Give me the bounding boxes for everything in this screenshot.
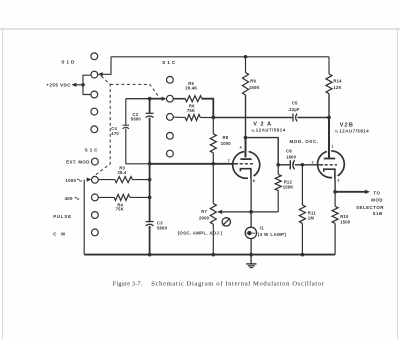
svg-text:R9: R9 — [250, 78, 256, 83]
label TO MOD SELECTOR S1B — [356, 191, 384, 217]
wire supply fork to S1D contacts — [83, 75, 90, 94]
svg-text:MOD: MOD — [371, 198, 383, 203]
svg-text:12K: 12K — [333, 85, 341, 90]
svg-text:1M: 1M — [308, 216, 315, 221]
svg-text:C5: C5 — [292, 101, 298, 106]
svg-text:1800: 1800 — [286, 154, 297, 159]
switch S1C right contact 3 (to R6) — [167, 114, 174, 121]
svg-text:R11: R11 — [308, 210, 317, 215]
node +255 VDC supply entry — [46, 83, 83, 88]
svg-text:R8: R8 — [223, 135, 229, 140]
svg-text:75K: 75K — [187, 108, 195, 113]
svg-text:26.4K: 26.4K — [185, 85, 197, 90]
switch S1C contact CW — [53, 229, 98, 237]
resistor R8 1000 — [210, 118, 231, 164]
wire top supply bus — [111, 56, 329, 58]
label V2B designation — [335, 123, 369, 134]
V2A cathode — [240, 169, 251, 179]
tube V2B envelope — [318, 151, 345, 178]
caption Figure 3-7 — [113, 280, 325, 287]
svg-text:28.4: 28.4 — [118, 170, 127, 175]
junction V2A plate branch — [244, 136, 248, 140]
junction bus/lamp — [249, 253, 253, 257]
svg-text:1000: 1000 — [65, 178, 76, 183]
svg-text:150K: 150K — [249, 85, 260, 90]
svg-text:Schematic Diagram of Internal: Schematic Diagram of Internal Modulation… — [151, 280, 324, 287]
label V2A designation — [251, 122, 286, 133]
page right edge — [397, 29, 399, 339]
switch mechanical linkage (dashed) S1D to S1C wafers — [93, 76, 158, 176]
svg-text:Figure 3-7.: Figure 3-7. — [113, 280, 143, 287]
resistor R12 100K — [275, 165, 293, 212]
svg-text:470: 470 — [111, 131, 119, 136]
svg-text:R14: R14 — [333, 78, 342, 83]
svg-text:R10: R10 — [340, 214, 349, 219]
wire S1D wiper to top bus — [98, 57, 111, 77]
capacitor C2 5600 — [131, 99, 154, 164]
svg-text:5600: 5600 — [157, 226, 168, 231]
wire V2A plate branch to C6 — [246, 138, 279, 165]
svg-text:S1D: S1D — [61, 60, 76, 66]
wire V2A grid bus — [150, 163, 234, 165]
tube V2A envelope — [233, 152, 260, 179]
ground symbol — [246, 255, 256, 268]
wire C5 to V2B plate node — [297, 117, 329, 119]
switch S1C contact PULSE — [53, 212, 98, 219]
svg-text:(3 W LAMP): (3 W LAMP) — [258, 232, 287, 237]
svg-text:C6: C6 — [286, 149, 292, 154]
switch S1C contact 400 cycles — [65, 194, 99, 201]
svg-text:12AU7/5814: 12AU7/5814 — [339, 128, 369, 133]
wire V2B grid lead — [302, 164, 320, 166]
junction V2B cathode/output/R10 — [333, 190, 337, 194]
junction ladder / grid bus — [148, 162, 152, 166]
junction R8 / grid bus / R7 — [211, 162, 215, 166]
svg-text:½: ½ — [251, 128, 255, 133]
wire R9 to V2A plate — [245, 95, 247, 138]
junction C2 top node — [148, 97, 152, 101]
resistor R3 28.4 — [98, 166, 149, 183]
svg-text:400: 400 — [65, 196, 73, 201]
junction cathode/R7/R12 — [249, 210, 253, 214]
svg-text:2000: 2000 — [199, 216, 210, 221]
V2B plate — [324, 158, 335, 160]
wire R14 to V2B plate node — [328, 94, 330, 118]
svg-text:+255 VDC: +255 VDC — [46, 83, 71, 88]
wire feedback node to C5 — [213, 117, 292, 119]
wire V2B plate lead — [328, 118, 330, 159]
wire R7 wiper arm — [217, 210, 251, 214]
svg-text:S1C: S1C — [162, 60, 177, 66]
wire node to S1C right wiper — [126, 97, 167, 101]
V2B cathode — [324, 169, 335, 179]
resistor R10 1500 — [332, 192, 351, 255]
lamp I1 (3 W LAMP) — [245, 225, 286, 238]
resistor R4 75K — [98, 194, 149, 211]
svg-text:TO: TO — [373, 191, 380, 196]
junction R5/R6/R8 node — [211, 116, 215, 120]
page top edge — [0, 28, 400, 30]
svg-text:½: ½ — [335, 129, 339, 134]
junction bus/R7 — [211, 253, 215, 257]
junction C6 right / R11 / V2B grid — [301, 163, 305, 167]
svg-text:1500: 1500 — [340, 220, 351, 225]
resistor R14 12K — [326, 57, 342, 94]
V2A plate — [240, 158, 251, 160]
wire R5 to R6 junction — [202, 99, 213, 118]
wire V2A cathode to lamp — [250, 179, 252, 228]
junction top bus / R9 — [244, 55, 248, 59]
svg-text:I1: I1 — [260, 225, 265, 230]
switch S1D contact 4 — [91, 108, 98, 115]
wire V2B cathode to output node — [334, 179, 336, 192]
screwdriver adjust symbol R7 — [222, 218, 230, 226]
wire C4 return to phase-shift ladder — [126, 163, 150, 165]
svg-text:6: 6 — [240, 145, 242, 149]
wire lamp to ground bus — [250, 239, 252, 255]
junction supply fork — [81, 83, 85, 87]
switch S1C contact EXT. MOD — [66, 158, 98, 165]
svg-text:2: 2 — [311, 160, 313, 164]
svg-text:12AU7/5814: 12AU7/5814 — [256, 128, 286, 133]
svg-text:1: 1 — [331, 145, 333, 149]
switch S1C right contact 4 — [167, 132, 174, 139]
switch S1C right contact 2 (to R5, wiper position) — [167, 95, 174, 102]
potentiometer R7 2000 (OSC. AMPL. ADJ) — [199, 164, 216, 255]
V2B grid (dashed) — [320, 164, 323, 166]
junction ladder / R4 — [148, 196, 152, 200]
svg-text:R7: R7 — [201, 209, 207, 214]
svg-text:1000: 1000 — [221, 141, 232, 146]
svg-text:MOD. OSC.: MOD. OSC. — [290, 139, 319, 144]
junction bus/C3 — [148, 253, 152, 257]
svg-text:PULSE: PULSE — [53, 214, 72, 219]
svg-text:S1C: S1C — [84, 147, 99, 153]
switch S1C right contact 5 — [167, 150, 174, 157]
svg-text:7: 7 — [227, 159, 229, 163]
resistor R5 26.4K — [173, 81, 202, 102]
svg-text:C W: C W — [53, 232, 67, 237]
capacitor C5 .22uF — [288, 101, 300, 122]
junction bus/R11 — [301, 253, 305, 257]
switch S1C right contact 1 — [167, 76, 174, 83]
switch S1D contact 5 — [91, 126, 98, 133]
wire ladder segment — [149, 164, 151, 221]
svg-text:SELECTOR: SELECTOR — [356, 205, 384, 210]
svg-text:100K: 100K — [283, 185, 294, 190]
svg-text:.22µF: .22µF — [288, 107, 300, 112]
capacitor C3 5600 — [146, 221, 168, 255]
svg-text:8: 8 — [253, 179, 255, 183]
wire output to MOD SELECTOR — [335, 190, 370, 194]
junction C6 left / R12 — [276, 163, 280, 167]
V2A grid (dashed) — [233, 163, 238, 165]
resistor R11 1M — [299, 165, 316, 255]
svg-text:(OSC. AMPL. ADJ ): (OSC. AMPL. ADJ ) — [178, 231, 223, 236]
wire V2A plate lead — [245, 138, 247, 158]
wire ground bus — [84, 254, 335, 256]
wire S1C left wiper down to ground bus — [84, 177, 91, 254]
capacitor C6 1800 — [278, 149, 302, 170]
wire R12 bottom to V2A cathode node — [251, 211, 278, 213]
svg-text:EXT. MOD: EXT. MOD — [66, 160, 90, 165]
svg-text:75K: 75K — [116, 207, 124, 212]
capacitor C4 470 — [111, 99, 129, 164]
svg-text:3: 3 — [337, 179, 339, 183]
switch S1D contact 3 — [91, 91, 98, 98]
switch S1D contact 2 (wiper position) — [91, 71, 98, 78]
resistor R6 75K — [173, 103, 213, 120]
switch S1D contact 1 — [91, 53, 98, 60]
resistor R9 150K — [243, 57, 260, 95]
svg-text:5600: 5600 — [131, 117, 142, 122]
junction ladder / R3 — [148, 178, 152, 182]
junction C5/R14/V2B plate — [327, 116, 331, 120]
page left edge — [2, 29, 4, 339]
switch S1C contact 1000 cycles (wiper position) — [65, 176, 98, 183]
svg-text:S1B: S1B — [373, 211, 383, 216]
